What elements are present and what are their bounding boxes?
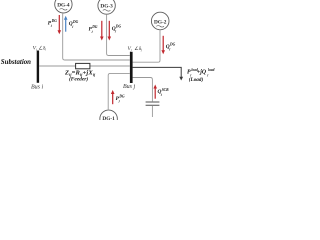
svg-text:DG: DG — [91, 25, 98, 29]
arrow P DG-4 red down — [58, 15, 62, 34]
svg-text:j: j — [118, 99, 120, 103]
svg-text:j: j — [50, 24, 52, 28]
wire DG-4 to bus j — [63, 13, 130, 60]
label P DG-1 — [116, 95, 125, 103]
svg-text:SCB: SCB — [162, 88, 169, 92]
arrow Q DG-2 red down — [161, 36, 165, 54]
svg-text:i: i — [45, 48, 46, 52]
label P DG-3 — [89, 25, 98, 33]
svg-text:+jQ: +jQ — [197, 70, 207, 76]
arrow P DG-1 red up — [111, 90, 115, 104]
arrow Q SCB red up — [153, 85, 157, 99]
svg-text:DG-4: DG-4 — [57, 3, 70, 9]
svg-text:i: i — [36, 48, 37, 52]
bus i substation bar — [37, 51, 39, 83]
arrow Q DG-4 blue up — [64, 16, 68, 32]
wire DG-1 to bus j — [108, 73, 130, 110]
wire bus j to capacitor SCB — [133, 78, 153, 102]
wire DG-2 to bus j — [133, 30, 160, 62]
svg-text:DG: DG — [72, 20, 79, 24]
wire bus j to load with arrow — [133, 67, 184, 80]
wire DG-3 to bus j — [107, 14, 130, 55]
arrow P DG-3 red down — [100, 21, 104, 41]
svg-text:DG-2: DG-2 — [154, 20, 167, 26]
svg-text:j: j — [91, 30, 93, 34]
wire capacitor tail — [151, 106, 153, 117]
svg-text:j: j — [160, 92, 162, 96]
svg-text:Bus j: Bus j — [123, 84, 136, 90]
bus j bar — [130, 52, 133, 83]
label Vi angle di — [33, 45, 46, 51]
svg-text:j: j — [206, 73, 208, 77]
label Vj angle dj — [128, 46, 143, 52]
label Q DG-3 — [112, 25, 122, 33]
svg-text:j: j — [140, 48, 142, 52]
svg-text:j: j — [168, 47, 170, 51]
svg-text:(Feeder): (Feeder) — [69, 76, 88, 83]
svg-text:Substation: Substation — [1, 57, 31, 66]
svg-text:DG-3: DG-3 — [100, 4, 113, 10]
svg-text:DG: DG — [118, 95, 125, 99]
label P DG-4 — [48, 19, 57, 27]
svg-text:DG: DG — [115, 25, 122, 29]
DG-2 generator circle U2 — [151, 12, 169, 30]
svg-text:j: j — [71, 24, 73, 28]
svg-text:(Load): (Load) — [189, 76, 204, 83]
svg-text:DG: DG — [51, 19, 58, 23]
label Q DG-4 — [69, 20, 79, 28]
DG-3 generator circle U3 — [98, 0, 115, 14]
DG-1 generator circle U1 — [100, 110, 118, 128]
svg-text:load: load — [208, 68, 215, 72]
svg-text:Bus i: Bus i — [31, 84, 44, 90]
impedance box Zij feeder — [76, 63, 90, 68]
label Q DG-2 — [166, 42, 176, 51]
svg-text:DG-1: DG-1 — [102, 116, 115, 120]
wire feeder bus i to bus j — [39, 65, 130, 67]
svg-text:DG: DG — [169, 42, 176, 46]
capacitor C SCB plates — [146, 102, 160, 105]
svg-text:j: j — [130, 48, 132, 52]
DG-4 generator circle U4 — [55, 0, 72, 13]
label Q SCB — [158, 88, 170, 97]
arrow Q DG-3 red down — [108, 21, 112, 41]
label P load plus jQ load — [187, 68, 215, 77]
svg-text:j: j — [114, 29, 116, 33]
